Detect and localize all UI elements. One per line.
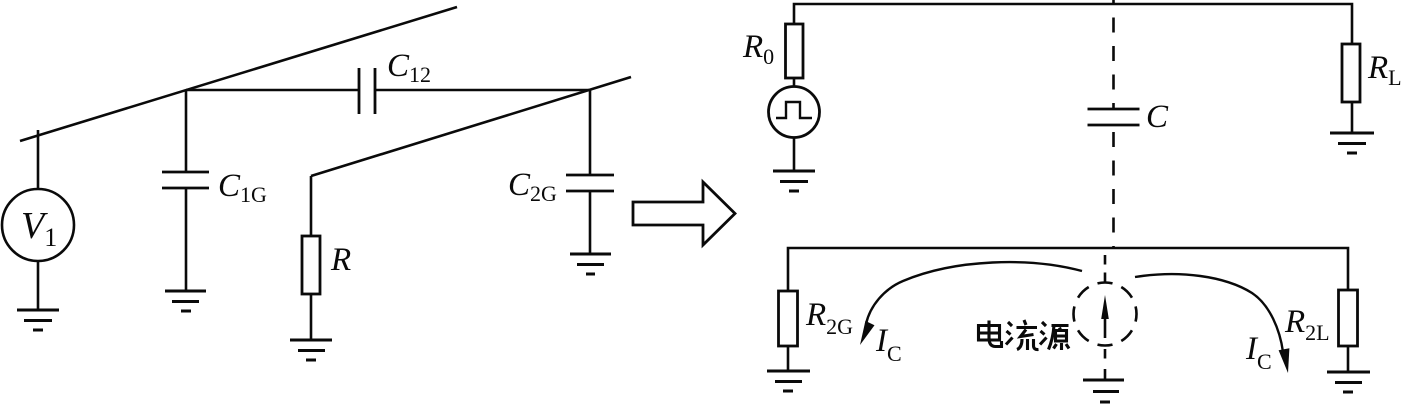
- label R2L: [1284, 304, 1330, 345]
- ground below R: [290, 340, 332, 360]
- label C2G: [508, 167, 557, 206]
- svg-text:V1: V1: [21, 205, 57, 252]
- capacitor C2G: [566, 175, 614, 191]
- wire top rail right circuit: [794, 4, 1352, 44]
- block arrow between circuits: [633, 182, 735, 245]
- wire line2 corner down to R: [310, 176, 313, 236]
- resistor R2G: [779, 291, 798, 346]
- label current source chinese liu: [1006, 320, 1039, 350]
- label C: [1146, 99, 1169, 135]
- pulse waveform symbol: [776, 102, 812, 118]
- wire dashed node line upper: [1112, 0, 1115, 109]
- label R: [330, 242, 351, 278]
- ground below C2G: [570, 254, 611, 274]
- svg-text:RL: RL: [1367, 50, 1402, 90]
- wire C12 right plate to junction2: [375, 89, 589, 92]
- svg-text:C2G: C2G: [508, 167, 557, 206]
- ground below R2L: [1327, 372, 1370, 392]
- wire line2 slanted middle transmission line: [311, 77, 631, 176]
- label C1G: [218, 168, 267, 207]
- wire dashed node line lower: [1112, 124, 1115, 248]
- resistor R2L: [1339, 290, 1358, 346]
- label V1: [21, 205, 57, 252]
- wire line1 slanted top-left transmission line: [20, 7, 457, 141]
- label R2G: [805, 297, 853, 339]
- curved arrow IC left: [860, 262, 1082, 345]
- svg-text:R: R: [330, 242, 351, 278]
- wire junction1 to C12 left plate: [186, 89, 359, 92]
- svg-text:R2G: R2G: [805, 297, 853, 339]
- current source arrow: [1101, 295, 1109, 338]
- current source dashed circle: [1104, 255, 1107, 283]
- resistor RL: [1342, 44, 1360, 102]
- svg-text:C: C: [1146, 99, 1169, 135]
- resistor R0: [786, 24, 804, 78]
- capacitor C: [1088, 109, 1140, 125]
- wire R2G to ground: [787, 346, 790, 371]
- capacitor C1G: [162, 172, 209, 188]
- wire junction1 down to C1G: [185, 90, 188, 172]
- wire R0 to pulse source: [793, 78, 796, 87]
- ground below RL: [1330, 133, 1374, 153]
- wire V1 top lead: [37, 130, 40, 189]
- wire C2G to ground: [589, 191, 592, 254]
- label current source chinese dian: [979, 321, 1002, 347]
- ground below V1: [17, 310, 59, 330]
- ground below current source: [1083, 380, 1124, 402]
- wire C1G to ground: [185, 188, 188, 291]
- label current source chinese yuan: [1040, 322, 1069, 350]
- svg-text:R2L: R2L: [1284, 304, 1330, 345]
- label RL: [1367, 50, 1402, 90]
- svg-text:C12: C12: [387, 48, 431, 87]
- label R0: [742, 29, 774, 69]
- ground below R2G: [767, 371, 810, 391]
- svg-text:C1G: C1G: [218, 168, 267, 207]
- ground below C1G: [165, 291, 206, 311]
- pulse voltage source: [769, 87, 820, 138]
- capacitor C12: [359, 68, 375, 114]
- label C12: [387, 48, 431, 87]
- wire bottom rail right circuit: [788, 248, 1348, 291]
- voltage source V1: [2, 189, 74, 261]
- wire junction2 down to C2G: [589, 90, 592, 175]
- svg-text:IC: IC: [1245, 331, 1272, 374]
- wire V1 bottom lead: [37, 261, 40, 310]
- label IC right: [1245, 331, 1272, 374]
- label IC left: [875, 323, 902, 366]
- wire pulse source to ground: [793, 137, 796, 171]
- wire R to ground: [310, 294, 313, 340]
- resistor R: [302, 236, 320, 294]
- wire R2L to ground: [1347, 346, 1350, 372]
- curved arrow IC right: [1135, 274, 1289, 373]
- svg-text:IC: IC: [875, 323, 902, 366]
- wire dashed below current source: [1104, 349, 1107, 380]
- ground below pulse source: [773, 171, 815, 191]
- wire RL to ground: [1351, 102, 1354, 133]
- svg-text:R0: R0: [742, 29, 774, 69]
